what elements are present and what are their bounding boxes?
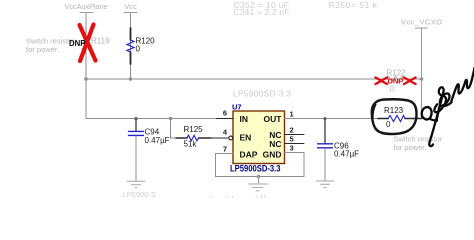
resistor R123 <box>378 106 422 129</box>
svg-text:Vcc_VCXO: Vcc_VCXO <box>401 18 442 27</box>
svg-text:7: 7 <box>223 145 227 154</box>
svg-text:0: 0 <box>390 85 395 94</box>
junction node at C94 <box>134 117 138 121</box>
ground (under C96) <box>316 181 334 187</box>
svg-text:LP5900SD-3.3: LP5900SD-3.3 <box>233 89 291 99</box>
pin 7 stub <box>218 153 233 155</box>
resistor R119 (DNP, gray) <box>83 37 111 53</box>
pin 4 (EN) number and bubble <box>223 127 233 140</box>
svg-text:6: 6 <box>223 108 227 117</box>
svg-text:0: 0 <box>136 45 141 54</box>
wire: Vcc stem <box>130 18 132 79</box>
svg-text:1: 1 <box>290 110 294 119</box>
svg-text:IN: IN <box>240 114 249 124</box>
note: C352 / C341 values <box>234 0 290 17</box>
resistor R120 <box>127 28 155 64</box>
svg-text:OUT: OUT <box>264 114 283 124</box>
resistor R122 (DNP, gray) <box>387 69 407 94</box>
svg-text:Vcc: Vcc <box>124 2 137 11</box>
svg-text:EN: EN <box>240 133 252 143</box>
ground (under C94) <box>127 181 145 188</box>
ground (under IC) <box>249 177 268 191</box>
junction node at R119/bus corner <box>84 77 88 81</box>
wire: bus corner down to IN row <box>86 79 233 119</box>
junction node at R120/bus <box>129 77 133 81</box>
power symbol VccAuxPlane <box>65 2 108 18</box>
pin 2 (NC) number + stub <box>285 126 305 135</box>
svg-text:DAP: DAP <box>240 150 258 160</box>
svg-text:for power.: for power. <box>394 143 427 152</box>
annotation: handwritten word "open" <box>422 68 474 146</box>
pin 1 stub <box>285 118 298 120</box>
wire: Vcc_VCXO vertical <box>421 28 423 119</box>
capacitor C94 <box>129 119 170 182</box>
svg-text:U7: U7 <box>232 103 242 112</box>
wire: DAP/GND return (U shape) <box>216 153 305 177</box>
junction node at R125 branch <box>169 117 173 121</box>
svg-text:R119: R119 <box>91 37 110 46</box>
svg-text:DNP: DNP <box>387 77 403 86</box>
DNP mark over R119 (red X + black DNP) <box>69 25 96 62</box>
svg-text:2: 2 <box>290 126 294 135</box>
svg-text:3: 3 <box>290 144 294 153</box>
svg-text:LP5900SD-3.3: LP5900SD-3.3 <box>230 163 281 174</box>
svg-text:4: 4 <box>223 127 228 136</box>
svg-text:0: 0 <box>386 120 391 129</box>
svg-text:5: 5 <box>290 135 294 144</box>
svg-text:LP5900-S: LP5900-S <box>123 190 156 198</box>
svg-text:VccAuxPlane: VccAuxPlane <box>65 2 108 11</box>
note: switch resistor for power (right) <box>394 135 443 153</box>
pin 3 stub <box>285 152 305 154</box>
svg-text:51k: 51k <box>184 140 198 149</box>
wire: main bus (y=79) <box>86 78 422 80</box>
clipped text at bottom edge <box>123 190 266 199</box>
power symbol Vcc <box>124 2 137 28</box>
junction node at bus/Vcc_VCXO <box>420 77 424 81</box>
resistor R125 with branch wire <box>171 119 229 149</box>
svg-text:C341 = 2.2 nF: C341 = 2.2 nF <box>234 7 290 17</box>
capacitor C96 <box>318 119 360 181</box>
svg-text:NC: NC <box>269 139 281 149</box>
svg-text:DNP: DNP <box>69 39 85 48</box>
svg-text:0.47µF: 0.47µF <box>145 136 170 145</box>
note: switch resistor for power (left) <box>26 37 75 55</box>
DNP mark over R122 (red X, DNP, X) <box>376 77 416 86</box>
svg-text:R350= 51 k: R350= 51 k <box>329 0 378 10</box>
junction node at C96 <box>323 117 327 121</box>
pin 6 stub <box>217 118 234 120</box>
svg-text:GND: GND <box>263 150 282 160</box>
wire: OUT net <box>285 118 379 120</box>
op IC U7 LP5900SD-3.3 <box>230 103 285 175</box>
svg-text:0.47µF: 0.47µF <box>334 150 359 159</box>
annotation: handwritten ellipse around R123 <box>372 99 417 134</box>
pin 5 (NC) number + stub <box>285 135 305 144</box>
svg-text:R125: R125 <box>184 125 204 134</box>
wire: VccAuxPlane stem to bus <box>85 18 87 79</box>
junction node on DAP return <box>257 175 261 179</box>
svg-text:R123: R123 <box>384 106 404 115</box>
power symbol Vcc_VCXO <box>401 18 442 29</box>
svg-text:for power.: for power. <box>26 45 59 54</box>
